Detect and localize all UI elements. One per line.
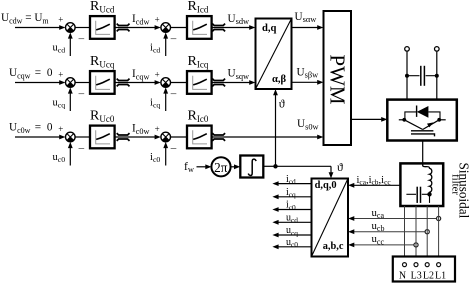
svg-text:Ucdw = Um: Ucdw = Um xyxy=(1,12,49,25)
wire theta to dq0 block xyxy=(276,165,332,167)
svg-text:+: + xyxy=(58,14,63,24)
wire row3 sumB to regulator xyxy=(171,136,188,138)
junction DC left dot xyxy=(405,74,409,78)
regulator R_Uc0 xyxy=(90,126,115,149)
wire U_s0w to PWM xyxy=(212,136,319,138)
wire U_salpha_w to PWM xyxy=(292,27,319,29)
wire u_cb tap xyxy=(354,231,425,233)
summing junction row2 A xyxy=(66,78,76,88)
svg-text:+: + xyxy=(155,69,160,79)
svg-text:–: – xyxy=(170,142,177,154)
junction theta dot xyxy=(273,164,277,168)
svg-text:–: – xyxy=(170,33,177,45)
wire i_abc from filter to dq0 block xyxy=(354,184,400,186)
wire row1 sumB to regulator xyxy=(171,27,188,29)
limiter mark after R_Icq xyxy=(212,79,225,87)
limiter mark after R_Ic0 xyxy=(212,133,225,141)
svg-text:ϑ: ϑ xyxy=(279,97,285,111)
wire phase line 2 xyxy=(415,206,417,263)
summing junction row2 B xyxy=(161,78,171,88)
mains terminal box xyxy=(393,257,455,282)
wire row2 limiter to sumB xyxy=(115,82,156,84)
svg-text:d,q,0: d,q,0 xyxy=(315,180,337,191)
wire u_ca tap xyxy=(354,218,437,220)
gain block 2pi xyxy=(211,157,230,176)
svg-text:–: – xyxy=(78,142,85,154)
wire u_cc tap xyxy=(354,244,414,246)
svg-text:ϑ: ϑ xyxy=(337,160,343,174)
tap circle u_cb xyxy=(425,230,429,234)
summing junction row1 B xyxy=(161,23,171,33)
regulator R_Icd xyxy=(187,16,212,39)
wire i_cq output xyxy=(279,196,312,198)
regulator R_Icq xyxy=(187,71,212,94)
svg-text:filter: filter xyxy=(450,174,462,195)
wire DC rail left xyxy=(406,52,408,100)
terminal L3 circle xyxy=(414,263,418,267)
wire phase line 3 xyxy=(426,206,428,263)
inverter transistor Q1 with diode xyxy=(399,106,446,137)
wire i_cd output xyxy=(279,183,312,185)
wire row2 sumB to regulator xyxy=(171,82,188,84)
wire phase line 4 xyxy=(438,206,440,263)
wire row2 sumA to regulator xyxy=(75,82,90,84)
terminal L1 circle xyxy=(437,263,441,267)
capacitor DC link xyxy=(407,66,437,86)
wire row1 sumA to regulator xyxy=(75,27,90,29)
wire f_w to 2pi xyxy=(197,166,207,168)
wire U_sdw xyxy=(212,27,251,29)
regulator R_Ucq xyxy=(90,71,115,94)
integrator block xyxy=(240,156,263,178)
limiter mark after R_Ucd xyxy=(117,24,130,32)
summing junction row1 A xyxy=(66,23,76,33)
node u_c0 feedback stub row3 xyxy=(69,146,71,166)
summing junction row3 B xyxy=(161,132,171,142)
wire U_sqw xyxy=(212,82,251,84)
svg-text:+: + xyxy=(58,124,63,134)
svg-text:Ucqw = 0: Ucqw = 0 xyxy=(9,67,54,80)
wire U_sbeta_w to PWM xyxy=(292,81,319,83)
terminal DC plus xyxy=(405,47,410,52)
wire theta up into alpha-beta block xyxy=(275,93,277,166)
svg-text:N: N xyxy=(399,271,406,282)
PWM modulator block xyxy=(324,11,352,145)
node i_cq feedback stub row2 xyxy=(165,92,167,112)
limiter mark after R_Ucq xyxy=(117,79,130,87)
svg-text:–: – xyxy=(78,33,85,45)
capacitor C filter xyxy=(406,187,429,203)
svg-text:d,q: d,q xyxy=(262,23,277,34)
junction filter dot xyxy=(427,192,431,196)
wire DC rail right xyxy=(436,52,438,100)
limiter mark after R_Icd xyxy=(212,24,225,32)
svg-text:L2: L2 xyxy=(423,271,434,282)
svg-text:Uc0w = 0: Uc0w = 0 xyxy=(9,122,54,135)
svg-text:α,β: α,β xyxy=(272,74,287,85)
svg-text:–: – xyxy=(78,88,85,100)
terminal DC minus xyxy=(435,47,440,52)
svg-text:L3: L3 xyxy=(411,271,422,282)
transform block dq0 to abc xyxy=(312,179,349,257)
node u_cd feedback stub row1 xyxy=(69,37,71,57)
tap circle u_ca xyxy=(437,216,441,220)
wire u_cq output xyxy=(279,234,312,236)
junction DC right dot xyxy=(435,74,439,78)
wire 2pi to integrator xyxy=(231,166,236,168)
terminal L2 circle xyxy=(425,263,429,267)
filter block box xyxy=(400,163,443,206)
summing junction row3 A xyxy=(66,132,76,142)
wire row3 sumA to regulator xyxy=(75,136,90,138)
svg-text:+: + xyxy=(155,124,160,134)
node u_cq feedback stub row2 xyxy=(69,92,71,112)
inverter block box xyxy=(387,100,457,141)
node i_c0 feedback stub row3 xyxy=(165,146,167,166)
wire integrator to junction xyxy=(263,165,275,167)
inductor L filter xyxy=(423,163,432,194)
limiter mark after R_Uc0 xyxy=(117,133,130,141)
wire u_cd output xyxy=(279,221,312,223)
wire row2 input xyxy=(15,82,61,84)
svg-text:+: + xyxy=(58,69,63,79)
tap circle u_cc xyxy=(414,243,418,247)
svg-text:PWM: PWM xyxy=(325,54,349,105)
regulator R_Ic0 xyxy=(187,126,212,149)
svg-text:L1: L1 xyxy=(435,271,446,282)
wire row3 limiter to sumB xyxy=(115,136,156,138)
regulator R_Ucd xyxy=(90,16,115,39)
svg-text:a,b,c: a,b,c xyxy=(323,241,344,252)
wire u_c0 output xyxy=(279,246,312,248)
wire row1 limiter to sumB xyxy=(115,27,156,29)
terminal N circle xyxy=(403,263,407,267)
wire phase line 1 xyxy=(404,206,406,263)
wire inverter to filter xyxy=(422,141,424,164)
wire row3 input xyxy=(15,136,61,138)
wire row1 input xyxy=(15,27,61,29)
svg-text:2π: 2π xyxy=(214,160,228,175)
transform block dq to alpha-beta xyxy=(256,19,292,90)
node i_cd feedback stub row1 xyxy=(165,37,167,57)
svg-text:–: – xyxy=(170,88,177,100)
svg-text:+: + xyxy=(155,14,160,24)
wire i_c0 output xyxy=(279,209,312,211)
wire PWM to inverter xyxy=(351,118,383,120)
